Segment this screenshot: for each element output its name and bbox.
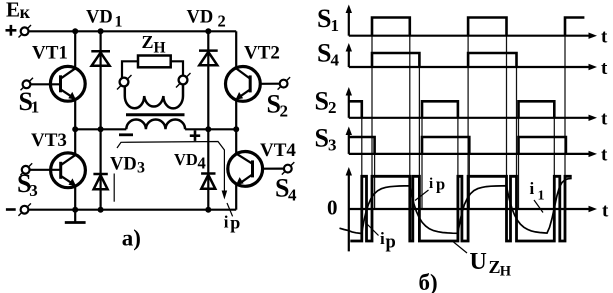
svg-text:Н: Н bbox=[154, 39, 166, 56]
svg-text:4: 4 bbox=[198, 154, 206, 173]
diode VD4 bbox=[201, 174, 215, 189]
svg-text:VD: VD bbox=[86, 7, 113, 27]
grid line S1 rise 3 S3 fall 3 bbox=[564, 36, 566, 209]
wire VT4 collector bbox=[235, 129, 237, 153]
svg-text:VD: VD bbox=[187, 7, 214, 27]
load ZH rectangle bbox=[138, 56, 171, 68]
label S1 bbox=[317, 4, 339, 35]
transformer core bbox=[126, 113, 185, 116]
wire VT3 emitter to bottom rail bbox=[74, 186, 76, 210]
label i1 bbox=[530, 179, 545, 204]
wire VT1 collector bbox=[74, 31, 76, 68]
wire VD1 branch bbox=[99, 31, 101, 129]
node bottom ground bbox=[72, 207, 78, 213]
axis S2 bbox=[346, 87, 597, 121]
ground bbox=[65, 210, 86, 223]
leader i1 bbox=[534, 200, 543, 213]
svg-text:2: 2 bbox=[218, 12, 226, 31]
axis S1 bbox=[346, 5, 597, 39]
svg-text:i: i bbox=[224, 213, 229, 232]
svg-text:S: S bbox=[317, 39, 331, 68]
label S4 bbox=[317, 39, 340, 70]
transformer secondary winding bbox=[125, 85, 183, 109]
node mid VD1 bbox=[98, 126, 104, 132]
leader U ZH bbox=[454, 242, 468, 253]
node bottom VD3 bbox=[98, 207, 104, 213]
diode VD2 bbox=[199, 51, 218, 66]
node top VD1 bbox=[98, 28, 104, 34]
svg-text:к: к bbox=[20, 2, 31, 22]
svg-text:р: р bbox=[436, 174, 445, 193]
svg-text:б): б) bbox=[419, 270, 438, 293]
svg-text:t: t bbox=[602, 201, 609, 222]
node bottom VD4 bbox=[205, 207, 211, 213]
terminal minus bbox=[6, 203, 31, 216]
waveform U ZH square wave bbox=[350, 176, 571, 241]
label minus primary bbox=[119, 133, 133, 136]
svg-text:S: S bbox=[315, 124, 329, 153]
grid line S2 S3 rise 2 bbox=[421, 118, 423, 209]
waveform S2 pulses bbox=[349, 101, 555, 118]
node mid VD2 bbox=[205, 126, 211, 132]
label VD1 bbox=[86, 7, 123, 30]
label S4 bbox=[275, 173, 297, 204]
wire VT2 collector bbox=[235, 31, 237, 68]
terminal S2 bbox=[260, 77, 290, 90]
terminal S4 bbox=[263, 162, 295, 175]
leader ip upper bbox=[415, 190, 429, 201]
label Ек bbox=[6, 0, 31, 22]
terminal load right bbox=[176, 73, 191, 88]
current ip annotation path bbox=[117, 142, 227, 200]
node top VD2 bbox=[205, 28, 211, 34]
label U ZH bbox=[470, 249, 512, 279]
grid line S1 S4 rise 1 bbox=[371, 36, 373, 209]
svg-text:1: 1 bbox=[115, 14, 123, 31]
grid line S2 fall 2 bbox=[457, 118, 459, 209]
svg-text:i: i bbox=[530, 179, 535, 198]
label S2 bbox=[315, 87, 337, 118]
grid line S1 S4 rise 2 bbox=[467, 36, 469, 209]
svg-text:VT1: VT1 bbox=[32, 43, 68, 64]
terminal load left bbox=[117, 75, 132, 90]
svg-text:t: t bbox=[601, 27, 608, 48]
terminal S1 bbox=[21, 78, 61, 91]
node top left leg bbox=[72, 28, 78, 34]
transistor VT3 bbox=[51, 153, 86, 188]
label S1 bbox=[19, 87, 40, 117]
waveform S1 pulses bbox=[372, 18, 584, 36]
label VD4 bbox=[174, 150, 206, 173]
svg-text:3: 3 bbox=[328, 135, 337, 154]
svg-text:0: 0 bbox=[327, 195, 338, 219]
svg-text:VT3: VT3 bbox=[31, 130, 67, 151]
label VD2 bbox=[187, 7, 226, 30]
svg-text:S: S bbox=[315, 87, 329, 116]
label ip lower bbox=[380, 229, 396, 253]
svg-text:2: 2 bbox=[328, 98, 337, 117]
grid line S3 fall 1 bbox=[374, 154, 376, 209]
svg-text:1: 1 bbox=[538, 189, 545, 204]
label ip schematic bbox=[224, 213, 241, 233]
svg-text:t: t bbox=[601, 109, 608, 130]
svg-text:i: i bbox=[429, 176, 433, 192]
wire VT1 emitter to mid rail bbox=[74, 99, 76, 129]
wire load right lead bbox=[171, 61, 183, 75]
wire VT2 emitter to mid rail bbox=[235, 100, 237, 130]
label ip upper bbox=[429, 174, 445, 193]
node mid left leg bbox=[72, 126, 78, 132]
wire mid rail right bbox=[185, 128, 236, 130]
svg-text:t: t bbox=[601, 145, 608, 166]
transistor VT2 bbox=[226, 67, 261, 102]
svg-text:U: U bbox=[470, 249, 487, 275]
svg-text:р: р bbox=[230, 213, 240, 233]
wire VT4 emitter to bottom rail bbox=[235, 185, 237, 210]
terminal +Ек bbox=[6, 25, 32, 38]
svg-text:t: t bbox=[601, 58, 608, 79]
svg-text:VT4: VT4 bbox=[260, 140, 296, 161]
grid line S4 fall 1 bbox=[418, 67, 420, 209]
svg-text:2: 2 bbox=[280, 102, 289, 121]
svg-text:а): а) bbox=[122, 226, 141, 251]
svg-text:i: i bbox=[380, 229, 385, 248]
svg-text:3: 3 bbox=[137, 159, 145, 176]
axis current chart bbox=[346, 167, 597, 251]
svg-text:Н: Н bbox=[500, 263, 512, 279]
grid line S2 fall 1 bbox=[361, 118, 363, 209]
wire VD3 branch bbox=[99, 129, 101, 209]
svg-text:VD: VD bbox=[110, 155, 137, 175]
svg-text:р: р bbox=[386, 233, 396, 253]
svg-text:VT2: VT2 bbox=[244, 43, 280, 64]
leader ip lower bbox=[366, 223, 379, 236]
svg-text:3: 3 bbox=[29, 181, 38, 200]
label plus primary bbox=[190, 131, 200, 141]
terminal S3 bbox=[20, 163, 60, 175]
waveform S3 pulses bbox=[349, 137, 566, 154]
diode VD3 bbox=[93, 174, 107, 189]
axis S3 bbox=[346, 127, 597, 158]
transistor VT1 bbox=[50, 66, 85, 101]
wire load left lead bbox=[122, 61, 138, 77]
label ZH bbox=[142, 32, 166, 56]
svg-text:4: 4 bbox=[288, 186, 297, 205]
grid line S4 fall 2 bbox=[516, 67, 518, 209]
leader VD3 bbox=[113, 174, 115, 202]
transformer primary winding bbox=[126, 120, 185, 130]
grid line S1 fall 1 bbox=[409, 36, 411, 209]
label S2 bbox=[267, 90, 289, 121]
wire bottom rail bbox=[28, 209, 236, 211]
diode VD1 bbox=[91, 51, 110, 66]
label VD3 bbox=[110, 155, 145, 177]
transistor VT4 bbox=[228, 152, 263, 187]
grid line S2 fall 3 bbox=[553, 118, 555, 209]
svg-text:1: 1 bbox=[331, 16, 340, 35]
leader ip schematic bbox=[227, 203, 233, 216]
svg-text:1: 1 bbox=[31, 98, 40, 117]
node mid right leg bbox=[233, 126, 239, 132]
grid line S3 fall 2 bbox=[468, 154, 470, 209]
svg-text:VD: VD bbox=[174, 150, 198, 169]
svg-text:Е: Е bbox=[6, 0, 20, 21]
svg-text:Z: Z bbox=[489, 257, 501, 277]
wire top rail bbox=[29, 30, 237, 32]
wire mid rail left bbox=[75, 128, 126, 130]
wire VT3 collector bbox=[74, 129, 76, 155]
label S3 bbox=[17, 169, 38, 200]
wire VD2 branch bbox=[207, 31, 209, 129]
grid line S1 fall 2 bbox=[506, 36, 508, 209]
svg-text:Z: Z bbox=[142, 32, 154, 52]
label S3 bbox=[315, 124, 337, 155]
wire VD4 branch bbox=[207, 129, 209, 209]
axis S4 bbox=[346, 43, 597, 70]
svg-text:4: 4 bbox=[331, 50, 340, 69]
waveform ip current curve bbox=[340, 178, 572, 233]
waveform S4 pulses bbox=[372, 53, 517, 67]
svg-text:S: S bbox=[317, 4, 331, 33]
grid line S2 S3 rise 3 bbox=[518, 118, 520, 209]
